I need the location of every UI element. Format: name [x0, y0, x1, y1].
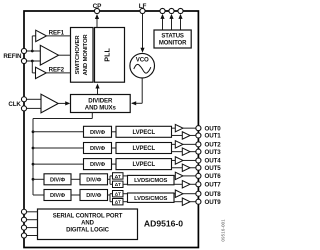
block LVPECL row 1	[116, 126, 172, 137]
wire buffer to pin OUT0	[183, 127, 196, 129]
wire buffer to pin OUT3	[190, 151, 196, 153]
node distribution bus junction row 1	[32, 130, 35, 133]
pin OUT6	[196, 173, 221, 180]
svg-text:SWITCHOVER: SWITCHOVER	[75, 35, 81, 75]
block LVPECL row 2	[116, 143, 172, 154]
svg-text:LVPECL: LVPECL	[132, 146, 155, 152]
wire REFIN bottom to amp	[27, 60, 41, 62]
node distribution bus junction row 2	[32, 147, 35, 150]
wire LVPECL to buffer OUT5	[172, 167, 183, 169]
svg-text:REF2: REF2	[49, 66, 65, 73]
wire LVPECL to buffer OUT1	[172, 134, 183, 136]
wire LVPECL to buffer OUT0	[172, 127, 176, 129]
pin CLK	[8, 97, 26, 111]
wire REF2 to switchover	[46, 66, 70, 73]
wire bus to divider row 5	[33, 194, 44, 196]
wire LF to VCO	[140, 14, 144, 53]
svg-text:CLK: CLK	[8, 101, 21, 108]
wire buffer to pin OUT7	[190, 183, 196, 185]
pin OUT7	[196, 182, 221, 189]
pin LF	[139, 3, 147, 14]
svg-text:DIV/Φ: DIV/Φ	[50, 177, 65, 183]
buffer OUT7	[182, 181, 190, 188]
wire LVDS to buffer OUT7	[174, 183, 182, 185]
buffer OUT0	[175, 124, 183, 131]
divider DIV second row 4	[80, 174, 108, 185]
pin OUT4	[196, 158, 221, 165]
wire CLK top to buffer	[27, 98, 42, 100]
svg-text:LVDS/CMOS: LVDS/CMOS	[134, 196, 167, 202]
svg-text:ΔT: ΔT	[115, 200, 121, 205]
wire bus to divider row 3	[33, 163, 84, 165]
wire LVDS to buffer OUT6	[174, 175, 175, 177]
wire DIV to LVPECL row 2	[112, 147, 117, 149]
svg-text:MONITOR: MONITOR	[159, 41, 187, 47]
wire LVPECL to buffer OUT2	[172, 143, 176, 145]
wire buffer to pin OUT8	[183, 193, 196, 195]
svg-text:REF1: REF1	[49, 29, 65, 36]
wire LVDS to buffer OUT8	[174, 193, 175, 195]
svg-text:OUT6: OUT6	[205, 173, 222, 180]
svg-text:OUT7: OUT7	[205, 182, 222, 189]
wire buffer to pin OUT1	[190, 134, 196, 136]
divider DIV first row 5	[44, 190, 71, 201]
buffer REF1	[36, 30, 47, 41]
divider DIV second row 5	[80, 190, 108, 201]
svg-text:OUT2: OUT2	[205, 142, 222, 149]
pin REFIN	[3, 48, 26, 63]
delay block dT OUT6	[113, 173, 124, 179]
buffer REF2	[36, 67, 47, 78]
svg-text:LF: LF	[139, 3, 147, 10]
block LVDS CMOS row 5	[128, 193, 175, 202]
wire buffer to pin OUT5	[190, 167, 196, 169]
block PLL	[95, 28, 125, 83]
block LVPECL row 3	[116, 159, 172, 170]
divider DIV row 3	[84, 159, 112, 170]
wire divider to delay split row 5	[108, 194, 113, 202]
svg-text:OUT5: OUT5	[205, 165, 222, 172]
svg-text:OUT8: OUT8	[205, 191, 222, 198]
status monitor pins	[160, 8, 183, 13]
oscillator VCO	[130, 53, 155, 78]
svg-text:SERIAL CONTROL PORT: SERIAL CONTROL PORT	[53, 214, 123, 220]
buffer OUT6	[175, 172, 183, 179]
svg-text:09516-001: 09516-001	[221, 219, 226, 242]
serial port pins	[21, 209, 26, 238]
status monitor arrows	[160, 14, 182, 30]
wire bus to divider row 2	[33, 147, 84, 149]
svg-text:DIV/Φ: DIV/Φ	[86, 177, 101, 183]
wire REF1 to switchover	[47, 29, 71, 36]
svg-text:DIV/Φ: DIV/Φ	[90, 130, 105, 136]
divider DIV first row 4	[44, 174, 71, 185]
wire bus to divider row 4	[33, 178, 44, 180]
svg-text:AND MONITOR: AND MONITOR	[83, 34, 89, 76]
wire LVDS to buffer OUT9	[174, 201, 182, 203]
buffer OUT8	[175, 190, 183, 197]
node REFIN top junction	[31, 50, 34, 53]
svg-text:ΔT: ΔT	[115, 182, 121, 187]
svg-text:DIV/Φ: DIV/Φ	[50, 193, 65, 199]
wire between dividers row 5	[71, 194, 80, 196]
pin OUT2	[196, 142, 221, 149]
delay block dT OUT7	[113, 181, 124, 187]
wire CLK buffer to divider	[58, 101, 70, 105]
block STATUS MONITOR	[154, 30, 191, 48]
wires serial pins to block	[27, 212, 38, 236]
svg-text:LVPECL: LVPECL	[132, 130, 155, 136]
wire DIV to LVPECL row 1	[112, 131, 117, 133]
block SERIAL CONTROL PORT AND DIGITAL LOGIC	[38, 209, 138, 240]
divider DIV row 1	[84, 126, 112, 137]
wire LVPECL to buffer OUT3	[172, 151, 183, 153]
wire delay to LVDS row 5	[123, 194, 128, 202]
wire VCO to divider	[131, 78, 142, 105]
svg-text:LVDS/CMOS: LVDS/CMOS	[134, 178, 167, 184]
svg-text:OUT3: OUT3	[205, 149, 222, 156]
svg-text:PLL: PLL	[102, 48, 111, 62]
svg-text:DIGITAL LOGIC: DIGITAL LOGIC	[66, 228, 110, 234]
svg-text:AND: AND	[81, 221, 94, 227]
svg-text:DIV/Φ: DIV/Φ	[90, 146, 105, 152]
svg-text:STATUS: STATUS	[161, 34, 184, 40]
svg-text:OUT0: OUT0	[205, 125, 222, 132]
wire junction to REF1	[32, 36, 35, 51]
node REFIN bottom junction	[31, 60, 34, 63]
buffer CLK	[41, 94, 58, 113]
node distribution bus junction row 4	[32, 178, 35, 181]
buffer OUT3	[182, 148, 190, 155]
buffer OUT4	[175, 157, 183, 164]
pin OUT8	[196, 191, 221, 198]
svg-text:ΔT: ΔT	[115, 192, 121, 197]
block SWITCHOVER AND MONITOR	[71, 28, 94, 83]
svg-text:DIV/Φ: DIV/Φ	[86, 193, 101, 199]
chip outline border	[24, 11, 198, 248]
node distribution bus junction row 3	[32, 163, 35, 166]
delay block dT OUT9	[113, 199, 124, 205]
delay block dT OUT8	[113, 191, 124, 197]
wire DIV to LVPECL row 3	[112, 163, 117, 165]
divider DIV row 2	[84, 143, 112, 154]
amp REFIN differential receiver	[40, 45, 58, 65]
pin OUT3	[196, 149, 221, 156]
buffer OUT5	[182, 164, 190, 171]
wire divider to delay split row 4	[108, 176, 113, 184]
svg-text:LVPECL: LVPECL	[132, 162, 155, 168]
wire REFIN amp to switchover	[59, 54, 71, 56]
svg-text:VCO: VCO	[136, 57, 149, 64]
wire CLK bottom to buffer	[27, 107, 42, 109]
wire PLL to CP	[95, 14, 99, 28]
svg-text:REFIN: REFIN	[3, 53, 22, 60]
wire between dividers row 4	[71, 178, 80, 180]
pin CP	[93, 3, 103, 14]
svg-text:OUT1: OUT1	[205, 133, 222, 140]
svg-text:DIVIDER: DIVIDER	[88, 98, 113, 105]
svg-text:AD9516-0: AD9516-0	[144, 218, 183, 228]
wire buffer to pin OUT9	[190, 201, 196, 203]
wire buffer to pin OUT4	[183, 159, 196, 161]
wire buffer to pin OUT6	[183, 175, 196, 177]
svg-text:OUT9: OUT9	[205, 199, 222, 206]
block LVDS CMOS row 4	[128, 175, 175, 184]
svg-text:AND MUXs: AND MUXs	[85, 105, 117, 112]
block DIVIDER AND MUXs	[71, 95, 131, 113]
buffer OUT9	[182, 198, 190, 205]
svg-text:CP: CP	[93, 3, 103, 10]
wire buffer to pin OUT2	[183, 143, 196, 145]
pin OUT5	[196, 165, 221, 172]
wire divider to PLL feedback	[95, 84, 99, 95]
pin OUT9	[196, 199, 221, 206]
wire divider output to distribution bus	[33, 113, 92, 196]
buffer OUT2	[175, 141, 183, 148]
pin OUT1	[196, 133, 221, 140]
wire LVPECL to buffer OUT4	[172, 159, 176, 161]
wire bus to divider row 1	[33, 131, 84, 133]
wire delay to LVDS row 4	[123, 176, 128, 184]
svg-text:ΔT: ΔT	[115, 174, 121, 179]
wire junction to REF2	[32, 61, 35, 73]
wire REFIN top to amp	[27, 50, 41, 52]
svg-text:OUT4: OUT4	[205, 158, 222, 165]
svg-text:DIV/Φ: DIV/Φ	[90, 162, 105, 168]
buffer OUT1	[182, 132, 190, 139]
pin OUT0	[196, 125, 221, 132]
